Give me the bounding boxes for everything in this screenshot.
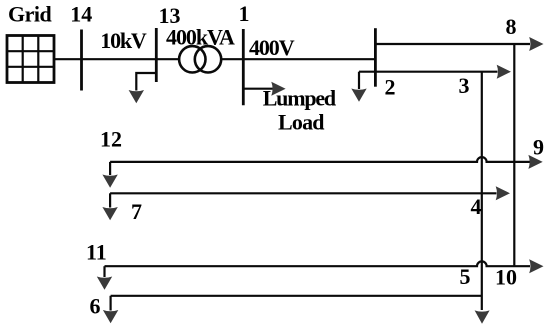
wire: feeder bus 2 to node 3 line xyxy=(359,71,498,73)
vertical feeder from node 8 line down to node 10 xyxy=(513,44,515,266)
svg-text:8: 8 xyxy=(506,14,517,39)
bus 1 xyxy=(242,29,245,105)
wire: load drop at node 12 xyxy=(109,162,111,175)
svg-text:2: 2 xyxy=(385,75,396,100)
vertical feeder from node 3 down to node 5 xyxy=(481,72,483,310)
transformer T1 400kVA xyxy=(179,46,221,72)
bus 2 xyxy=(374,28,377,86)
bus 14 xyxy=(80,30,83,91)
arrow at node 10 xyxy=(529,259,543,273)
arrow at bottom of node-5 feeder xyxy=(475,310,490,323)
wire: load drop at node 6 xyxy=(109,296,111,311)
svg-text:400kVA: 400kVA xyxy=(166,25,235,50)
arrow at node 4 xyxy=(496,186,510,200)
arrow into node-3 feeder end xyxy=(497,65,511,79)
wire: feeder node 12 to node 9 with hop over vertical feeder xyxy=(110,157,530,162)
svg-text:Lumped: Lumped xyxy=(263,86,336,111)
wire: feeder node 6 to node 5 xyxy=(111,295,482,297)
wire: feeder node 11 to node 10 with hop over vertical feeder xyxy=(105,261,531,266)
load arrow at node 6 xyxy=(103,310,118,323)
wire: load drop at node 11 xyxy=(103,266,105,277)
wire: transformer to bus 2 (400V main line) xyxy=(221,58,376,60)
load arrow at bus 13 xyxy=(129,90,144,103)
svg-text:10: 10 xyxy=(495,265,517,290)
svg-text:5: 5 xyxy=(460,264,471,289)
load arrow at node 2 xyxy=(351,89,366,102)
svg-text:400V: 400V xyxy=(249,35,295,60)
svg-text:1: 1 xyxy=(239,1,250,26)
svg-text:Load: Load xyxy=(278,109,324,134)
wire: grid to transformer (10kV main line) xyxy=(54,58,180,60)
svg-text:9: 9 xyxy=(533,135,544,160)
arrow at node 9 xyxy=(528,155,542,169)
lumped load arrow xyxy=(271,82,285,96)
svg-text:12: 12 xyxy=(100,127,122,152)
svg-text:6: 6 xyxy=(90,294,101,319)
wire: lumped load feeder from bus 1 xyxy=(243,88,272,90)
svg-text:14: 14 xyxy=(70,2,92,27)
wire: feeder node 7 to node 4 xyxy=(110,192,496,194)
svg-text:11: 11 xyxy=(86,240,107,265)
svg-text:3: 3 xyxy=(459,73,470,98)
arrow at node 8 xyxy=(529,37,543,51)
wire: load drop at node 2 xyxy=(358,72,360,89)
bus 13 xyxy=(155,28,158,82)
wire: load tap at bus 13 xyxy=(136,73,156,91)
svg-text:7: 7 xyxy=(131,199,142,224)
load arrow at node 12 xyxy=(102,175,117,188)
svg-text:4: 4 xyxy=(471,194,482,219)
load arrow at node 11 xyxy=(97,277,112,290)
grid source symbol xyxy=(7,36,54,83)
wire: load drop at node 7 xyxy=(109,193,111,207)
wire: top feeder bus 2 to node 8 xyxy=(375,43,530,45)
load arrow at node 7 xyxy=(102,207,117,220)
svg-text:Grid: Grid xyxy=(8,2,51,27)
svg-text:10kV: 10kV xyxy=(100,28,147,53)
